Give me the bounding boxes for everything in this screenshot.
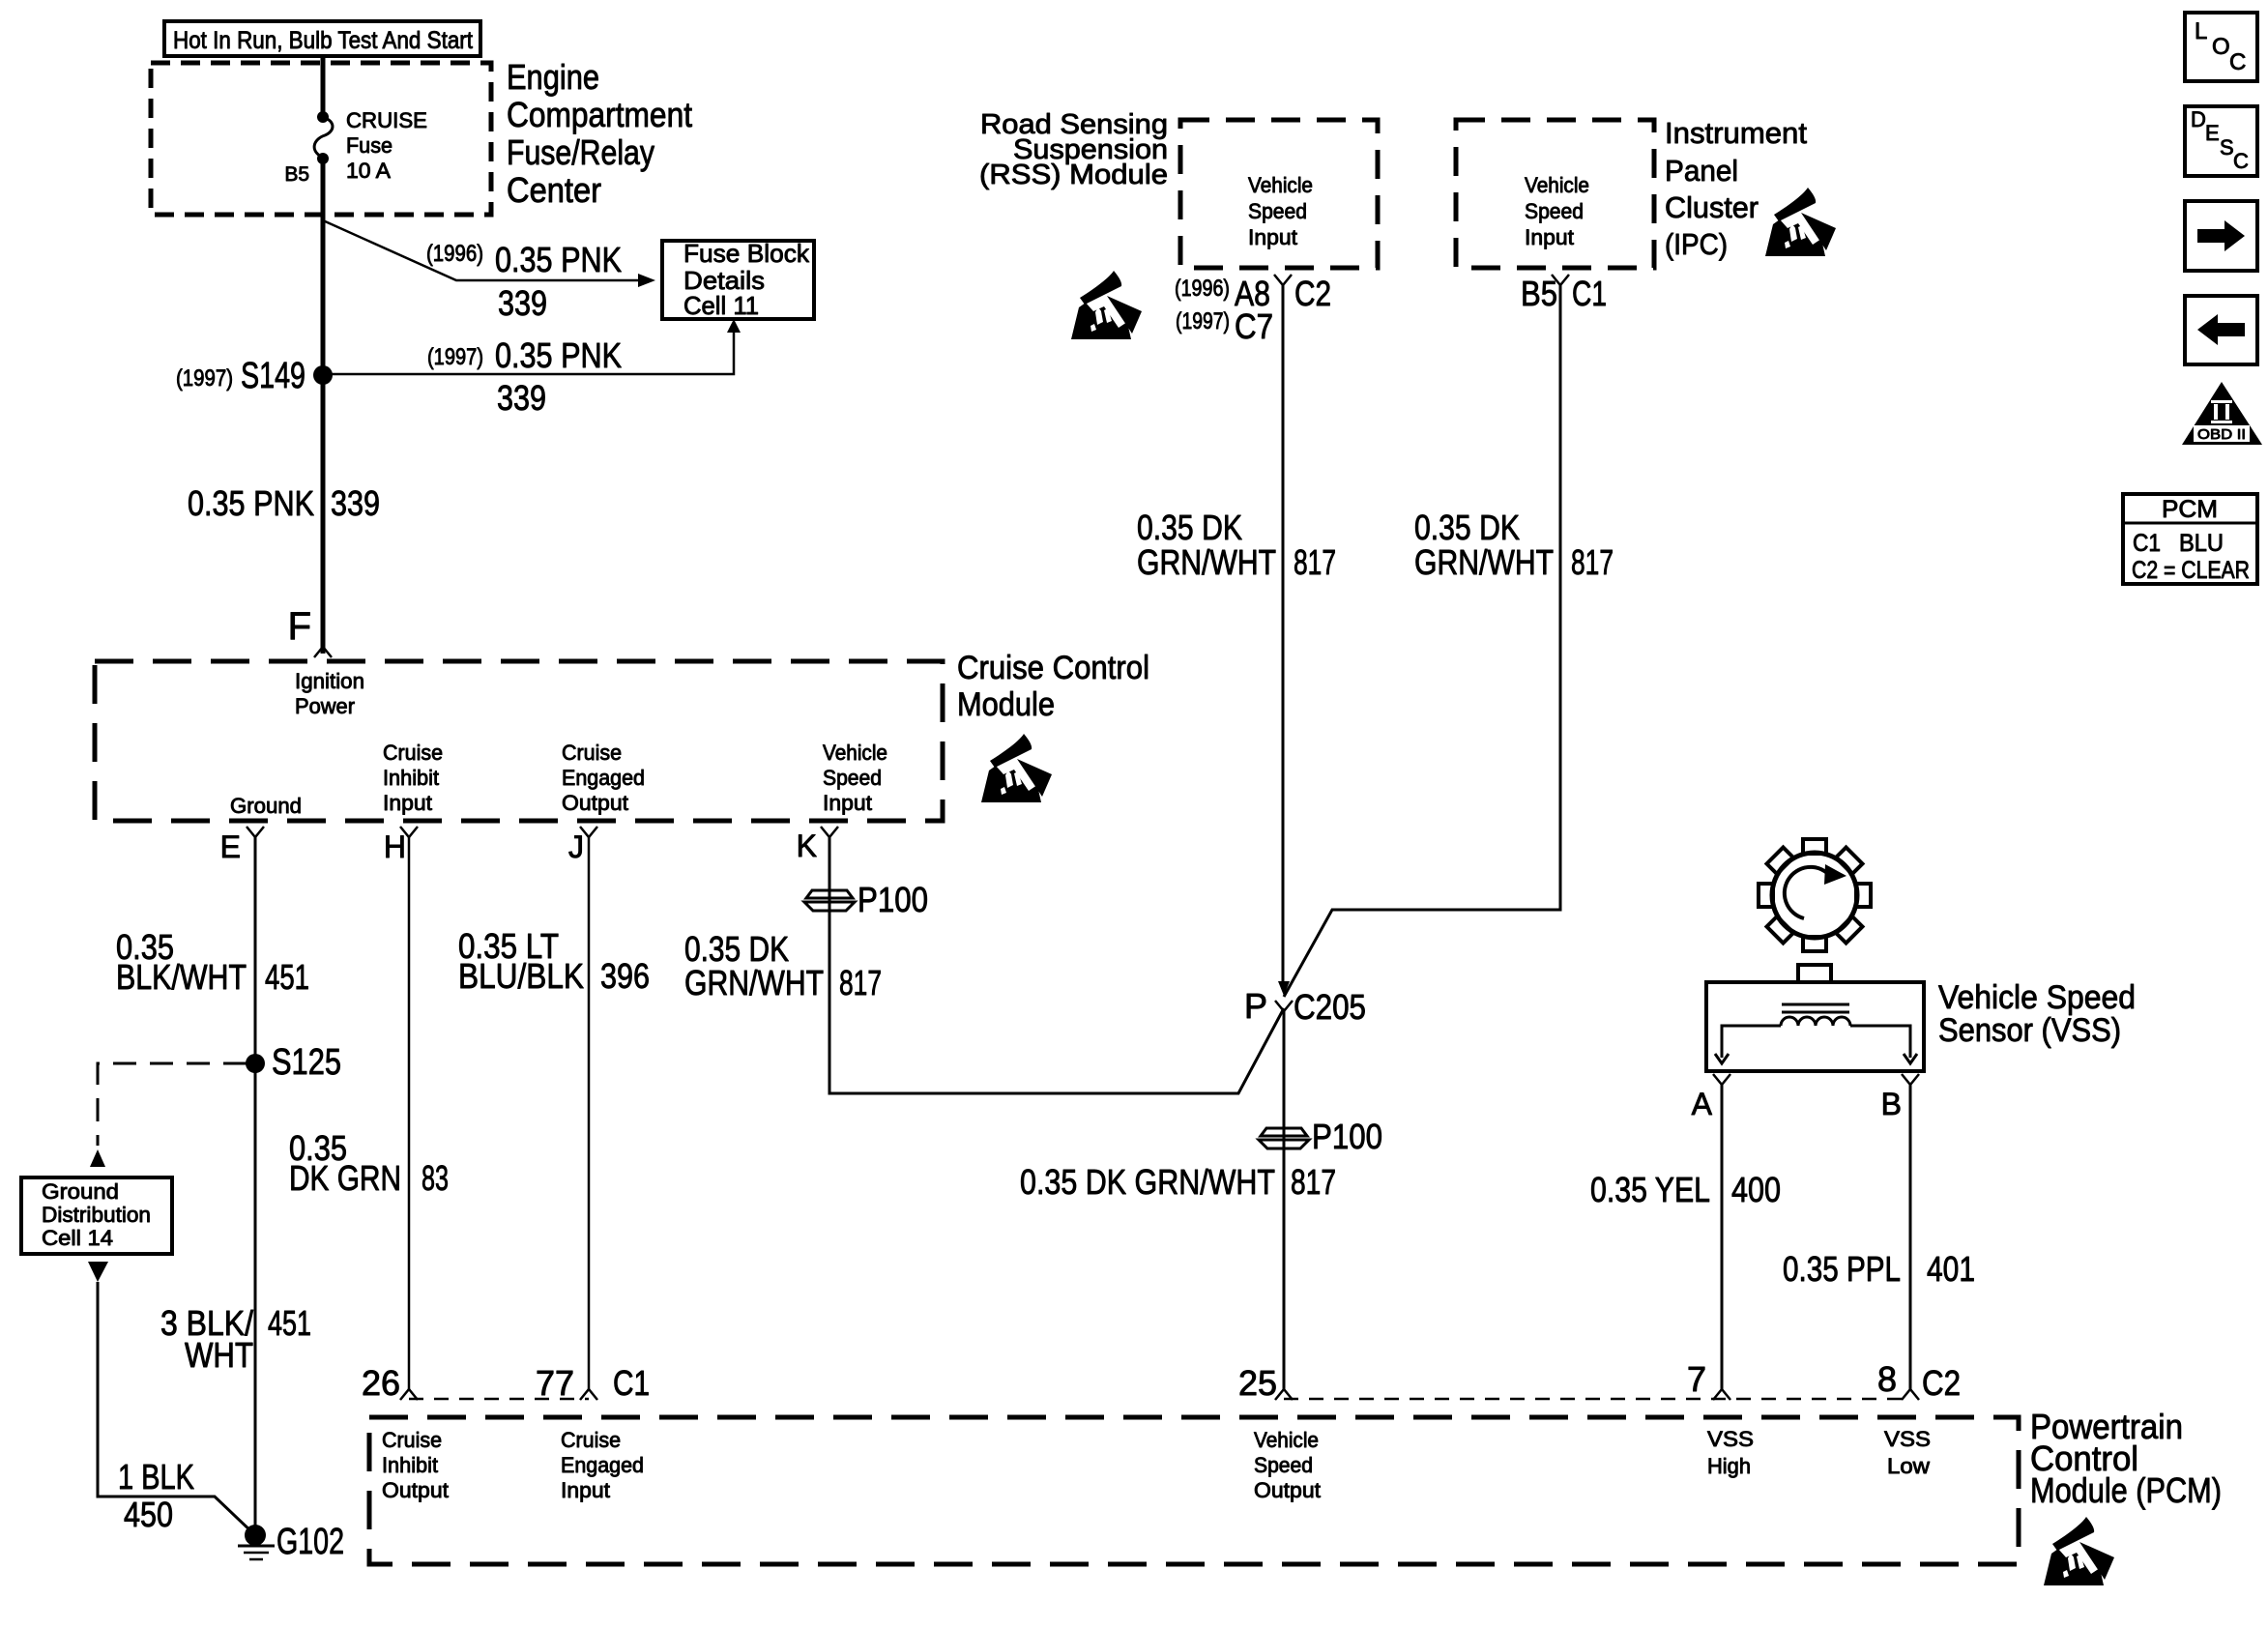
svg-text:Fuse Block: Fuse Block [683,239,810,268]
svg-text:Instrument: Instrument [1665,116,1807,150]
connector mark [1902,1074,1919,1085]
svg-text:PCM: PCM [2162,496,2218,523]
svg-text:0.35 PNK: 0.35 PNK [188,483,314,523]
wire: 0.35 LT BLU/BLK 396 from pin J to PCM pin 77 [588,837,591,1389]
svg-text:817: 817 [1571,542,1614,582]
svg-text:F: F [288,605,311,648]
svg-text:Center: Center [507,170,601,210]
svg-text:Input: Input [383,791,432,815]
connector mark [1275,1389,1293,1400]
svg-text:Module: Module [957,686,1055,723]
arrowhead into C205 [1278,981,1290,996]
svg-text:Engaged: Engaged [562,766,645,790]
box [2185,13,2257,81]
grommet P100 (second) [1259,1128,1309,1148]
ESD symbol PCM [2044,1517,2114,1585]
box [164,21,480,56]
wire segment [323,220,638,280]
gear rotation arrowhead [1824,864,1846,885]
box [1706,982,1924,1071]
svg-text:0.35 DK GRN/WHT: 0.35 DK GRN/WHT [1020,1162,1275,1202]
svg-text:Module (PCM): Module (PCM) [2030,1470,2222,1510]
svg-text:(IPC): (IPC) [1665,227,1728,261]
svg-text:B: B [1881,1087,1902,1121]
svg-text:339: 339 [498,283,547,323]
svg-text:L: L [2195,18,2207,44]
wire: 0.35 DK GRN/WHT 817 from pin K to C205 [829,837,1284,1093]
wire: 0.35 DK GRN/WHT 817 from C205 to PCM pin 25 [1283,1011,1286,1389]
svg-text:A: A [1692,1087,1713,1121]
arrowhead [2182,382,2262,445]
svg-text:450: 450 [124,1495,173,1534]
svg-text:Vehicle Speed: Vehicle Speed [1938,979,2136,1016]
svg-text:C: C [2233,149,2249,173]
arrowhead [727,319,741,333]
junction dot [313,365,333,385]
box [2185,106,2257,176]
box [95,661,943,821]
svg-text:(1997): (1997) [1176,308,1230,334]
wire segment [1782,1011,1849,1014]
svg-text:OBD II: OBD II [2197,426,2246,443]
svg-text:Cruise: Cruise [562,741,622,765]
connector mark pin H [400,827,418,837]
box [2185,296,2257,364]
svg-text:DK GRN: DK GRN [289,1158,401,1198]
box [21,1177,172,1254]
VSS reluctor gear icon [1759,839,1871,951]
svg-text:WHT: WHT [185,1335,253,1375]
svg-text:GRN/WHT: GRN/WHT [684,963,824,1003]
wire segment [238,1545,275,1548]
svg-text:(1997): (1997) [176,365,233,392]
svg-text:10 A: 10 A [346,159,391,183]
arrowhead to Ground Distribution [90,1149,105,1167]
svg-text:8: 8 [1877,1359,1897,1399]
svg-text:D: D [2191,107,2206,131]
svg-text:339: 339 [497,378,546,418]
svg-text:(1996): (1996) [1175,276,1230,302]
wire: 0.35 YEL 400 from VSS A to PCM pin 7 [1721,1085,1724,1389]
wire segment [1850,1026,1910,1058]
svg-text:C1: C1 [1572,274,1607,313]
svg-text:(RSS) Module: (RSS) Module [979,160,1168,190]
connector mark IPC pin [1552,275,1569,285]
junction dot [246,1054,265,1073]
svg-text:Hot In Run, Bulb Test And Star: Hot In Run, Bulb Test And Start [173,27,473,54]
svg-text:Speed: Speed [1254,1453,1313,1477]
connector mark RSS pin [1274,275,1292,285]
svg-text:1 BLK: 1 BLK [118,1457,194,1497]
svg-text:Vehicle: Vehicle [1525,173,1589,197]
svg-text:Cruise: Cruise [383,741,443,765]
svg-text:Ground: Ground [42,1179,119,1204]
svg-text:S: S [2220,135,2234,160]
svg-text:25: 25 [1238,1363,1277,1403]
svg-text:Input: Input [561,1478,610,1502]
box [1456,120,1654,268]
svg-text:Cruise: Cruise [561,1428,621,1452]
wire segment [244,1552,269,1555]
connector mark pin F [314,647,332,657]
svg-text:Cruise: Cruise [382,1428,442,1452]
svg-text:C1: C1 [613,1363,650,1403]
svg-text:0.35 PPL: 0.35 PPL [1783,1249,1901,1289]
box [2185,201,2257,271]
wire: 0.35 DK GRN/WHT 817 from RSS to C205 [1282,285,1285,988]
svg-text:Engaged: Engaged [561,1453,644,1477]
svg-text:817: 817 [839,963,882,1003]
svg-text:Low: Low [1887,1454,1930,1478]
connector C205 [1275,1001,1293,1011]
svg-text:77: 77 [536,1363,574,1403]
svg-text:C: C [2229,49,2246,75]
svg-text:E: E [2205,121,2220,145]
svg-text:BLK/WHT: BLK/WHT [116,957,247,997]
wire segment [98,1063,247,1146]
svg-text:451: 451 [268,1303,311,1343]
svg-text:Cell 11: Cell 11 [683,291,759,320]
connector mark pin J [580,827,597,837]
svg-text:451: 451 [265,957,309,997]
svg-text:B5: B5 [1521,274,1557,313]
svg-text:S125: S125 [272,1042,341,1083]
svg-text:(1996): (1996) [426,241,483,267]
svg-text:0.35 YEL: 0.35 YEL [1590,1170,1710,1209]
svg-text:GRN/WHT: GRN/WHT [1414,542,1554,582]
svg-text:J: J [568,829,584,864]
junction dot [245,1525,266,1546]
svg-text:Ground: Ground [230,794,302,818]
arrowhead [638,274,655,287]
wire: feed into fuse [321,56,326,116]
wire segment [1722,1026,1781,1058]
svg-text:Input: Input [1525,225,1574,249]
svg-text:Input: Input [823,791,872,815]
svg-text:G102: G102 [276,1522,344,1562]
svg-text:P: P [1244,986,1267,1026]
grommet P100 [804,890,855,911]
svg-text:Vehicle: Vehicle [1254,1428,1319,1452]
svg-text:Speed: Speed [1248,199,1307,223]
svg-text:VSS: VSS [1884,1427,1931,1451]
svg-text:P100: P100 [1312,1117,1382,1156]
svg-text:400: 400 [1731,1170,1781,1209]
wire: 0.35 PNK 339 trunk from fuse to cruise module pin F [321,159,326,654]
svg-text:0.35 DK: 0.35 DK [1137,508,1242,547]
svg-text:BLU: BLU [2179,530,2224,557]
box [151,63,491,215]
connector mark [1713,1389,1730,1400]
junction dot [317,153,329,164]
svg-text:339: 339 [331,483,380,523]
svg-text:C1: C1 [2133,530,2161,557]
junction dot [317,111,329,123]
wire: 0.35 DK GRN 83 from pin H to PCM pin 26 [408,837,411,1389]
svg-text:High: High [1707,1454,1751,1478]
svg-text:O: O [2212,34,2230,60]
connector mark pin E [247,827,264,837]
wire segment [323,333,734,374]
ESD symbol cruise control module [981,734,1052,802]
svg-text:Distribution: Distribution [42,1203,151,1227]
svg-text:Cell 14: Cell 14 [42,1226,113,1250]
svg-text:7: 7 [1687,1359,1706,1399]
wire segment [1782,1003,1849,1006]
svg-text:Fuse: Fuse [346,133,393,158]
svg-text:Output: Output [1254,1478,1321,1502]
svg-text:Compartment: Compartment [507,95,692,134]
svg-text:Panel: Panel [1665,154,1738,188]
svg-text:CRUISE: CRUISE [346,108,427,132]
wire: 1 BLK 450 to G102 [98,1282,255,1535]
wire: 0.35 PPL 401 from VSS B to PCM pin 8 [1909,1085,1912,1389]
svg-text:0.35 PNK: 0.35 PNK [495,240,622,279]
svg-text:C205: C205 [1294,987,1366,1027]
svg-text:Cluster: Cluster [1665,190,1759,224]
svg-text:Cruise Control: Cruise Control [957,650,1149,686]
svg-text:Engine: Engine [507,57,599,97]
svg-text:0.35 PNK: 0.35 PNK [495,335,622,375]
svg-text:Vehicle: Vehicle [1248,173,1313,197]
connector mark [580,1389,597,1400]
svg-text:396: 396 [600,956,650,996]
wire segment [409,1398,589,1401]
svg-text:C2: C2 [1922,1363,1961,1403]
ESD symbol IPC [1765,188,1836,256]
svg-text:26: 26 [362,1363,400,1403]
svg-text:E: E [220,829,241,864]
svg-text:GRN/WHT: GRN/WHT [1137,542,1276,582]
svg-text:Sensor (VSS): Sensor (VSS) [1938,1012,2121,1049]
box [369,1417,2019,1564]
svg-text:H: H [384,829,406,864]
svg-text:K: K [797,829,817,863]
svg-text:817: 817 [1291,1162,1336,1202]
connector mark [1713,1074,1730,1085]
svg-text:401: 401 [1927,1249,1975,1289]
svg-text:Output: Output [382,1478,449,1502]
box [1180,120,1378,268]
svg-text:Fuse/Relay: Fuse/Relay [507,132,654,172]
wire segment [249,1558,263,1561]
svg-text:817: 817 [1294,542,1336,582]
svg-text:Inhibit: Inhibit [383,766,439,790]
box [2123,494,2257,584]
wire: 0.35 DK GRN/WHT 817 from IPC to C205 [1284,285,1560,997]
svg-text:S149: S149 [241,356,305,396]
connector mark [1902,1389,1919,1400]
wire segment [2123,522,2257,525]
svg-text:Vehicle: Vehicle [823,741,887,765]
svg-text:Speed: Speed [823,766,882,790]
svg-text:C2 = CLEAR: C2 = CLEAR [2132,557,2250,584]
svg-text:Power: Power [295,694,355,718]
svg-text:P100: P100 [858,880,928,919]
svg-text:(1997): (1997) [427,344,483,370]
svg-text:C7: C7 [1235,306,1273,346]
svg-text:BLU/BLK: BLU/BLK [458,956,584,996]
svg-text:B5: B5 [284,163,309,186]
svg-text:0.35 DK: 0.35 DK [1414,508,1520,547]
ESD symbol RSS module [1071,271,1142,339]
svg-text:C2: C2 [1294,274,1331,313]
connector mark pin K [821,827,838,837]
svg-text:VSS: VSS [1707,1427,1754,1451]
svg-text:Input: Input [1248,225,1297,249]
connector mark [400,1389,418,1400]
svg-text:Inhibit: Inhibit [382,1453,438,1477]
svg-text:83: 83 [422,1158,449,1198]
svg-text:Ignition: Ignition [295,669,364,693]
svg-text:Speed: Speed [1525,199,1584,223]
wire: ground 0.35 BLK/WHT 451 from pin E to G102 [254,837,257,1535]
arrowhead from Ground Distribution [88,1262,108,1282]
wire segment [1284,1398,1910,1401]
box [662,241,814,319]
svg-text:Output: Output [562,791,628,815]
box [1798,965,1831,982]
